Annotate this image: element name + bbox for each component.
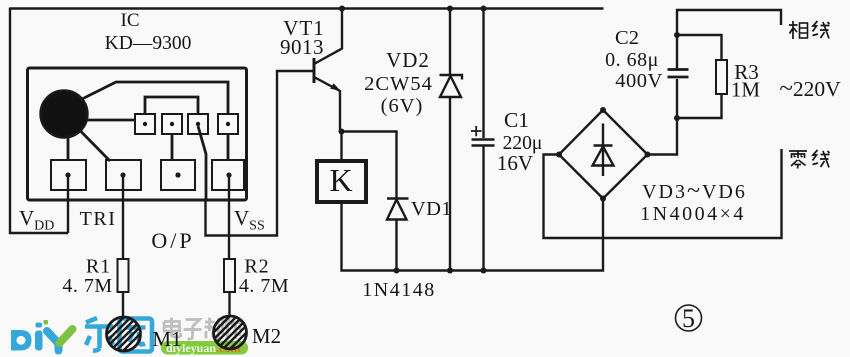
pin 1 contact dot xyxy=(65,172,70,177)
capacitor C1 polarity plus xyxy=(471,126,482,136)
svg-text:2CW54: 2CW54 xyxy=(364,73,433,95)
node C2 bottom junction xyxy=(674,115,680,121)
svg-text:M2: M2 xyxy=(252,324,281,348)
svg-text:TRI: TRI xyxy=(80,208,117,230)
wire bridge left node to neutral line xyxy=(544,149,782,238)
svg-text:K: K xyxy=(329,162,352,198)
svg-text:5: 5 xyxy=(682,304,695,333)
watermark green pill diyleyuan.com xyxy=(161,341,248,355)
svg-text:9013: 9013 xyxy=(280,35,324,59)
svg-text:1M: 1M xyxy=(731,78,761,102)
wire bond pad P4 to pin 4 xyxy=(227,134,230,161)
node bridge right xyxy=(645,152,651,158)
capacitor C2 plates xyxy=(668,70,689,78)
wire bond pad P3 to VSS tab xyxy=(198,126,206,200)
node bottom rail C1 xyxy=(481,268,487,274)
pin 4 contact dot xyxy=(226,172,231,177)
bond pad P4 dot xyxy=(226,122,230,126)
figure number circle 5 xyxy=(676,305,702,331)
bond pad P2 dot xyxy=(170,122,174,126)
svg-text:(6V): (6V) xyxy=(381,95,424,117)
wire C2 junction to R3 top xyxy=(677,35,722,60)
node top rail C1 xyxy=(481,6,487,12)
svg-text:VDD: VDD xyxy=(19,206,54,234)
svg-text:4. 7M: 4. 7M xyxy=(239,275,289,297)
watermark char yuan xyxy=(120,319,153,352)
node bridge left xyxy=(556,152,562,158)
pin 1 square VDD xyxy=(51,160,86,190)
IC die xyxy=(41,91,88,138)
wire R1 to M1 xyxy=(122,292,124,318)
bond pad P1 dot xyxy=(143,122,147,126)
svg-text:IC: IC xyxy=(121,10,140,31)
capacitor C1 plates xyxy=(472,140,495,146)
touch pad M2 hatching xyxy=(184,306,273,357)
label phase line xiang char xyxy=(789,21,808,39)
watermark grey char dian xyxy=(164,318,181,338)
svg-text:VD1: VD1 xyxy=(411,198,452,220)
zener VD2 cathode bar xyxy=(440,75,463,80)
svg-text:KD—9300: KD—9300 xyxy=(105,33,192,54)
resistor R2 xyxy=(224,259,235,292)
wire capacitor C1 top xyxy=(482,9,484,139)
wire pin 4 to R2 xyxy=(228,175,230,259)
wire emitter node to relay K xyxy=(340,132,342,162)
diode VD1 cathode bar xyxy=(387,197,409,199)
watermark char le xyxy=(85,318,113,351)
node bottom rail VD2 xyxy=(447,268,453,274)
pin 3 square O/P xyxy=(161,160,195,190)
wire VD1 to bottom rail xyxy=(395,220,397,271)
svg-text:O/P: O/P xyxy=(151,228,194,253)
node C2 top junction xyxy=(674,32,680,38)
relay K coil box xyxy=(317,161,366,202)
wire bracket over bond pads P1 P3 xyxy=(145,97,198,115)
watermark letter i xyxy=(35,331,43,351)
svg-text:0. 68μ: 0. 68μ xyxy=(605,49,659,71)
touch pad M2 electrode xyxy=(214,316,247,349)
label neutral line ling char xyxy=(789,151,807,169)
wire relay K to bottom rail and bottom rail to bridge xyxy=(342,199,604,271)
svg-text:1N4148: 1N4148 xyxy=(362,279,435,301)
transistor VT1 emitter xyxy=(314,77,340,132)
wire capacitor C1 to bottom rail xyxy=(482,147,484,271)
pin 4 square VSS xyxy=(212,160,244,190)
IC KD-9300 chip outline xyxy=(28,68,247,200)
node emitter K VD1 xyxy=(339,129,345,135)
wire zener VD2 top xyxy=(449,9,451,75)
wire pin 2 to R1 xyxy=(122,175,124,259)
wire VSS tab outline and base feed to VT1 xyxy=(206,71,314,236)
svg-text:M1: M1 xyxy=(152,327,181,351)
pin 2 contact dot xyxy=(120,172,125,177)
svg-text:VSS: VSS xyxy=(234,206,265,234)
node top rail VT1 collector xyxy=(339,6,345,12)
wire top positive rail xyxy=(10,7,604,9)
node bridge bottom xyxy=(600,196,606,202)
bridge inner diode wire xyxy=(602,124,604,177)
svg-text:C1: C1 xyxy=(504,108,529,132)
svg-text:400V: 400V xyxy=(615,70,663,92)
bond pad P3 dot xyxy=(196,122,200,126)
wire zener VD2 to bottom rail xyxy=(449,97,451,271)
wire R3 bottom to C2 junction xyxy=(677,94,722,118)
svg-text:4. 7M: 4. 7M xyxy=(62,275,112,297)
bridge inner diode bar xyxy=(594,144,613,146)
wire R2 to M2 xyxy=(228,292,230,317)
svg-text:~220V: ~220V xyxy=(779,75,841,102)
bond pad P2 xyxy=(162,114,182,134)
zener VD2 triangle xyxy=(440,76,461,97)
wire bridge right node to C2 R3 junction xyxy=(648,79,678,155)
transistor VT1 emitter arrow xyxy=(330,83,340,91)
resistor R1 xyxy=(118,259,129,292)
pin 2 square TRI xyxy=(106,160,141,190)
svg-text:VD2: VD2 xyxy=(386,48,430,72)
bond pad P4 xyxy=(218,114,238,134)
transistor Q1 VT1 base bar xyxy=(313,58,316,83)
label neutral line xian char xyxy=(813,150,830,168)
bond pad P3 xyxy=(188,114,208,134)
watermark grey char zi xyxy=(184,320,202,340)
watermark letter Y xyxy=(47,331,59,351)
svg-text:C2: C2 xyxy=(615,27,639,49)
svg-text:VD3~VD6: VD3~VD6 xyxy=(642,178,747,204)
label phase line xian char xyxy=(813,21,830,39)
touch pad M1 hatching xyxy=(79,306,168,357)
wire die to bond pad P1 xyxy=(86,119,136,122)
transistor VT1 collector xyxy=(314,8,342,65)
watermark grey char zhi xyxy=(205,318,223,339)
wire bond pad P2 to pin 3 xyxy=(171,134,174,161)
node bridge top xyxy=(600,107,606,113)
diode VD1 triangle xyxy=(387,200,407,220)
wire emitter node to VD1 xyxy=(342,132,397,198)
wire phase line to C2 top xyxy=(677,10,781,69)
svg-text:1N4004×4: 1N4004×4 xyxy=(640,203,746,225)
bridge inner diode triangle xyxy=(593,147,614,166)
wire die to bond pad P4 xyxy=(80,82,228,115)
wire IC box left edge (VDD net) xyxy=(10,8,68,234)
wire die to pin 2 xyxy=(80,131,110,162)
watermark letter D xyxy=(11,330,32,351)
svg-text:16V: 16V xyxy=(497,151,533,175)
watermark grey char zuo xyxy=(226,318,243,339)
touch pad M1 electrode xyxy=(107,317,141,351)
wire pin 1 to VDD tab xyxy=(67,175,69,233)
node bottom rail VD1 xyxy=(394,268,400,274)
bridge rectifier diamond VD3-VD6 xyxy=(559,110,648,199)
node top rail VD2 xyxy=(447,6,453,12)
resistor R3 xyxy=(716,60,727,94)
wire die to pin 1 xyxy=(67,135,70,161)
bond pad P1 xyxy=(135,114,155,134)
pin 3 contact dot xyxy=(175,172,180,177)
